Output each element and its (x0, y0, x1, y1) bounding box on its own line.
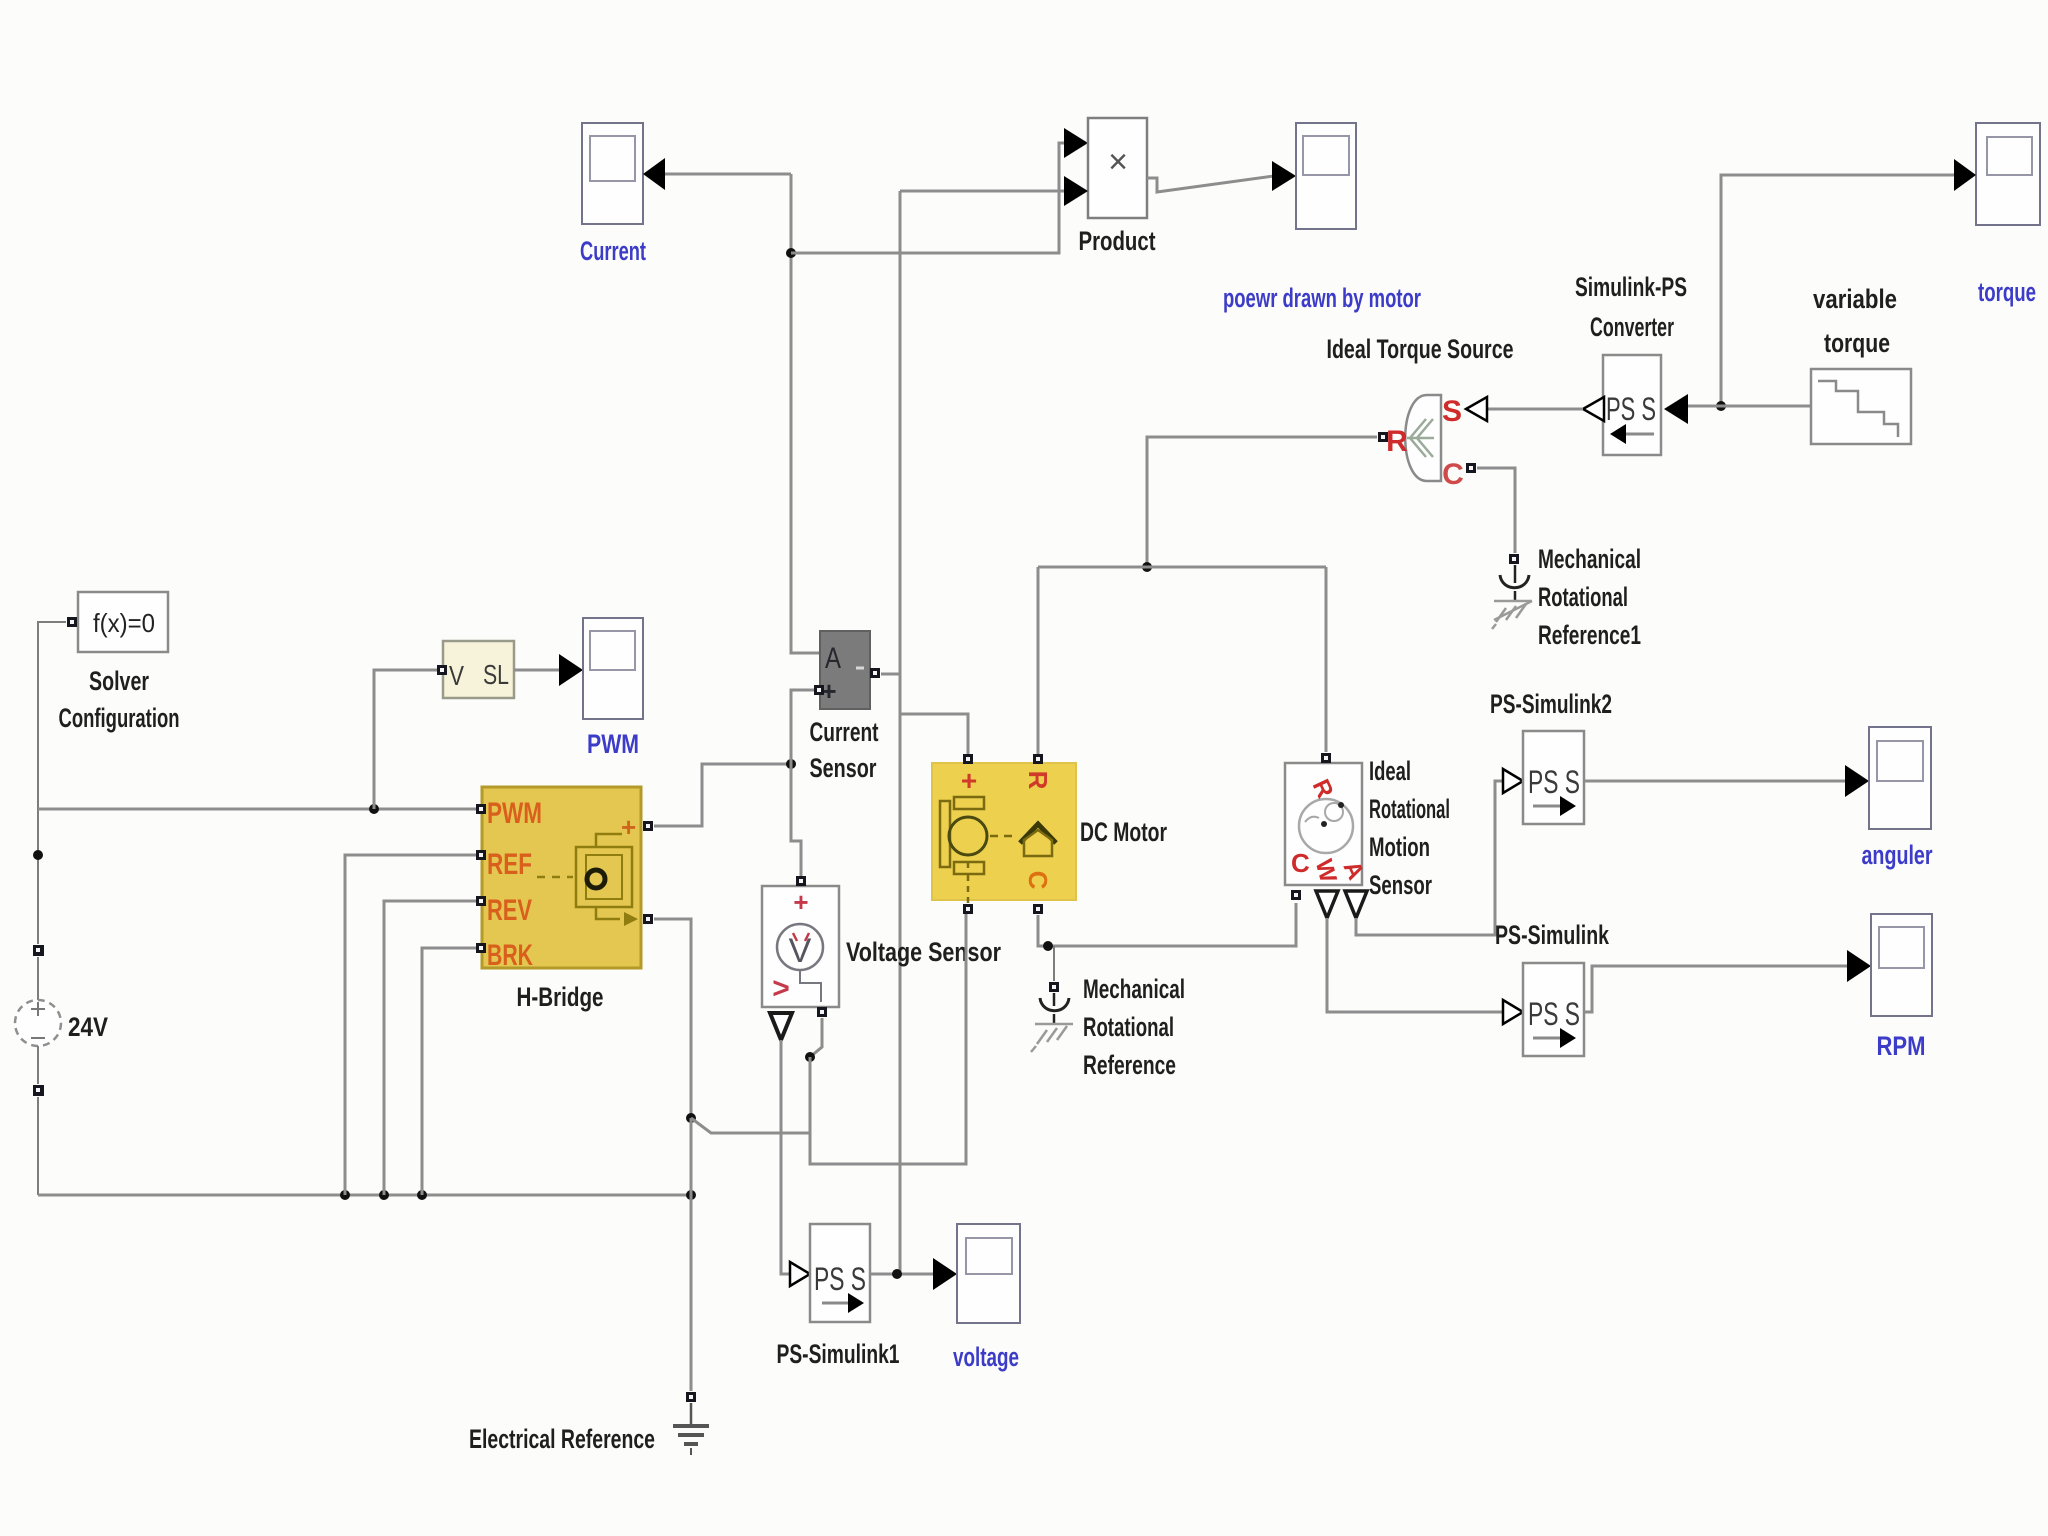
svg-text:anguler: anguler (1862, 840, 1933, 870)
svg-text:Product: Product (1079, 226, 1156, 256)
svg-text:torque: torque (1824, 328, 1890, 358)
svg-text:PS-Simulink1: PS-Simulink1 (777, 1339, 900, 1369)
svg-text:Ideal Torque Source: Ideal Torque Source (1327, 334, 1514, 364)
scope Current (582, 123, 643, 224)
wire H-bridge minus to vertical (654, 919, 691, 1118)
junction J1 at 791,253 (786, 248, 796, 258)
block PS-Simulink (1523, 963, 1584, 1056)
wire sensor W to PS-Simulink (1327, 918, 1504, 1012)
port arrow PS output (hollow) (1583, 397, 1604, 421)
svg-text:Simulink-PS: Simulink-PS (1575, 272, 1687, 302)
port arrow S input (hollow) (1466, 397, 1487, 421)
port square torque source C (1466, 463, 1476, 473)
svg-text:voltage: voltage (953, 1342, 1019, 1372)
port arrow sensor W (down triangle) (1316, 891, 1338, 918)
label Mechanical Rotational Reference1 (1538, 544, 1641, 650)
wire ground bus (38, 1194, 691, 1197)
block Voltage Sensor (762, 886, 839, 1007)
arrowhead into anguler scope (1845, 765, 1869, 797)
junction J7 at 691,1118 (686, 1113, 696, 1123)
wire minus rail down and to motor minus (810, 914, 966, 1164)
svg-text:BRK: BRK (487, 939, 533, 972)
svg-text:+: + (621, 812, 636, 842)
port square PWM (476, 804, 486, 814)
junction J3 at 1147,567 (1142, 562, 1152, 572)
svg-text:f(x)=0: f(x)=0 (93, 608, 155, 638)
wire REF line (345, 855, 476, 1195)
port square REF (476, 850, 486, 860)
port arrow PS-Simulink2 input (hollow) (1503, 769, 1523, 793)
label variable torque (1813, 284, 1897, 358)
port square motor R (1033, 754, 1043, 764)
svg-text:PS S: PS S (1606, 391, 1656, 427)
label Simulink-PS Converter (1575, 272, 1687, 342)
arrowhead product input2 (1064, 176, 1088, 206)
junction J8 at 810,1057 (805, 1052, 815, 1062)
junction bus BRK (417, 1190, 427, 1200)
wire variable torque to torque scope (1721, 175, 1954, 406)
arrowhead into RPM scope (1847, 950, 1871, 982)
scope anguler (1869, 727, 1931, 829)
svg-text:R: R (1023, 771, 1053, 790)
label Mechanical Rotational Reference (1083, 974, 1185, 1080)
block PS-Simulink2 (1523, 731, 1584, 824)
wire J7 down to electrical reference (690, 1118, 693, 1391)
source 24V (15, 945, 61, 1096)
wire BRK line (422, 948, 476, 1195)
wire mech net to sensor R (1325, 567, 1328, 752)
svg-text:Solver: Solver (89, 666, 149, 696)
junction J2 at 1721,406 (1716, 401, 1726, 411)
svg-text:24V: 24V (68, 1012, 108, 1042)
port square solver config (67, 617, 77, 627)
svg-text:Current: Current (810, 717, 879, 747)
wire J6 up to current sensor plus (791, 690, 814, 764)
svg-text:PWM: PWM (487, 797, 542, 830)
svg-text:poewr drawn by motor: poewr drawn by motor (1223, 283, 1421, 313)
wire from Current scope to vertical V1 (665, 173, 791, 176)
svg-text:Voltage Sensor: Voltage Sensor (846, 937, 1001, 967)
wire solver config to left rail (38, 622, 66, 944)
svg-text:C: C (1291, 848, 1310, 878)
svg-text:PS-Simulink2: PS-Simulink2 (1490, 689, 1612, 719)
port square motor plus (963, 754, 973, 764)
label Current Sensor (810, 717, 879, 783)
block Ideal Torque Source (1386, 395, 1464, 491)
wire PS-Simulink2 to anguler scope (1584, 780, 1847, 783)
junction J6 at 791,764 (786, 759, 796, 769)
svg-text:Configuration: Configuration (59, 703, 180, 733)
junction J10 at 1048,946 (1043, 941, 1053, 951)
port square sensor C (1291, 890, 1301, 900)
svg-text:SL: SL (483, 659, 509, 690)
port square torque source R (1378, 432, 1388, 442)
wire motor C to reference ground (1038, 903, 1296, 946)
svg-text:Converter: Converter (1590, 312, 1674, 342)
scope PWM (583, 618, 643, 719)
svg-text:H-Bridge: H-Bridge (517, 982, 604, 1012)
wire variable torque output (1688, 405, 1811, 408)
svg-text:PS S: PS S (814, 1261, 866, 1297)
junction J9 at 897,1274 (892, 1269, 902, 1279)
block Solver Configuration f(x)=0 (78, 592, 168, 652)
svg-text:Rotational: Rotational (1369, 794, 1450, 824)
ground Electrical Reference (673, 1392, 709, 1455)
junction bus REF (340, 1190, 350, 1200)
wire product bottom input from vertical V2 (900, 190, 1064, 193)
junction J5 at 374,809 (369, 804, 379, 814)
block Current Sensor (820, 631, 870, 709)
ground Mechanical Rotational Reference (1031, 982, 1073, 1052)
wire junction down to reference (1053, 946, 1055, 981)
port arrow PS-Simulink1 input (hollow) (790, 1262, 810, 1286)
wire product output to power scope (1147, 176, 1274, 192)
svg-text:variable: variable (1813, 284, 1897, 314)
arrowhead into PWM scope (559, 654, 583, 686)
arrowhead into scope Current (643, 158, 665, 190)
svg-text:+: + (793, 887, 808, 917)
block DC Motor (932, 763, 1076, 903)
wire converter to torque source S (1487, 408, 1583, 411)
svg-text:PS S: PS S (1528, 764, 1580, 800)
port square current sensor out (870, 668, 880, 678)
wire mech net to motor R (1037, 567, 1040, 754)
arrowhead into Simulink-PS converter (1664, 394, 1688, 424)
svg-text:A: A (825, 642, 841, 675)
block Product (1088, 118, 1147, 218)
wire torque source R to mech net (1147, 437, 1377, 567)
port square H-bridge minus out (643, 914, 653, 924)
block Controlled PWM Voltage (V SL) (443, 641, 514, 698)
wire junction to V input of controlled PWM (374, 670, 437, 809)
arrowhead into power scope (1272, 161, 1296, 191)
svg-text:V: V (789, 932, 812, 970)
svg-text:C: C (1023, 871, 1053, 890)
svg-text:torque: torque (1978, 277, 2036, 307)
svg-text:PWM: PWM (587, 729, 639, 759)
wire branch V2 to DC motor plus (900, 714, 968, 754)
ground Mechanical Rotational Reference1 (1492, 554, 1532, 629)
label Ideal Rotational Motion Sensor (1369, 756, 1450, 900)
svg-text:Sensor: Sensor (810, 753, 877, 783)
svg-text:Electrical Reference: Electrical Reference (469, 1424, 655, 1454)
wire voltage sensor bottom to minus rail (810, 1018, 822, 1057)
svg-text:PS-Simulink: PS-Simulink (1495, 920, 1610, 950)
junction bus right (686, 1190, 696, 1200)
svg-text:Current: Current (580, 236, 646, 266)
port arrow PS-Simulink input (hollow) (1503, 1000, 1523, 1024)
label Solver Configuration (59, 666, 180, 733)
svg-text:RPM: RPM (1877, 1031, 1926, 1061)
wire H-bridge plus to node J6 (654, 764, 791, 826)
arrowhead product input1 (1064, 128, 1088, 158)
wire 24V minus to ground bus (37, 1097, 39, 1195)
port square H-bridge plus out (643, 821, 653, 831)
svg-text:Mechanical: Mechanical (1538, 544, 1641, 574)
port square motor minus (963, 904, 973, 914)
wire V SL to PWM scope (514, 669, 562, 672)
junction J4 at 38,855 (33, 850, 43, 860)
svg-text:DC Motor: DC Motor (1080, 817, 1167, 847)
port arrow sensor A (down triangle) (1345, 891, 1367, 918)
wire PS output down to PS-Simulink1 (781, 1040, 791, 1274)
port square voltage sensor bottom (817, 1007, 827, 1017)
svg-text:REF: REF (487, 848, 532, 881)
svg-text:Mechanical: Mechanical (1083, 974, 1185, 1004)
wire PS-Simulink1 output to voltage scope (870, 1273, 936, 1276)
svg-text:Motion: Motion (1369, 832, 1430, 862)
svg-text:PS S: PS S (1528, 996, 1580, 1032)
svg-text:C: C (1442, 458, 1464, 491)
svg-text:Ideal: Ideal (1369, 756, 1411, 786)
wire REV line (384, 901, 476, 1195)
wire J1 to product top input (791, 143, 1066, 253)
scope torque (1976, 123, 2040, 225)
svg-text:Reference1: Reference1 (1538, 620, 1641, 650)
svg-text:Rotational: Rotational (1083, 1012, 1174, 1042)
port square V input (437, 665, 447, 675)
svg-text:R: R (1386, 425, 1408, 458)
arrowhead into torque scope (1954, 159, 1976, 191)
wire PWM control line (38, 808, 476, 811)
svg-text:Rotational: Rotational (1538, 582, 1628, 612)
block H-Bridge (482, 787, 641, 972)
block Ideal Rotational Motion Sensor (1285, 763, 1369, 886)
block PS-Simulink1 (810, 1224, 870, 1322)
svg-text:V: V (449, 660, 464, 691)
arrowhead into voltage scope (933, 1258, 957, 1290)
port square motor C (1033, 904, 1043, 914)
wire mech net horizontal (1038, 566, 1326, 569)
wire PS-Simulink to RPM scope (1584, 966, 1847, 1012)
wire vertical V1 current-net (791, 174, 820, 653)
port arrow voltage sensor PS output (down triangle) (770, 1013, 792, 1040)
port square voltage sensor top (796, 876, 806, 886)
scope voltage (957, 1224, 1020, 1323)
svg-text:REV: REV (487, 894, 532, 927)
port square BRK (476, 943, 486, 953)
wire sensor A to PS-Simulink2 (1356, 781, 1504, 935)
port square current sensor plus (814, 685, 824, 695)
svg-text:+: + (961, 765, 977, 796)
junction bus REV (379, 1190, 389, 1200)
wire J7 diagonal to minus rail (691, 1118, 810, 1133)
wire current sensor out to vertical V2 (881, 673, 900, 676)
scope poewr drawn by motor (1296, 123, 1356, 229)
port square sensor R (1321, 753, 1331, 763)
wire J6 down to voltage sensor top (791, 764, 801, 876)
scope RPM (1871, 914, 1932, 1016)
block variable torque (signal builder) (1811, 369, 1911, 444)
wire vertical V2 voltage-net (899, 191, 902, 1274)
block Simulink-PS Converter (1603, 355, 1661, 455)
svg-text:Sensor: Sensor (1369, 870, 1432, 900)
svg-text:S: S (1442, 395, 1462, 428)
svg-text:×: × (1108, 143, 1128, 181)
wire torque source C to reference1 (1477, 468, 1515, 553)
port square REV (476, 896, 486, 906)
svg-text:Reference: Reference (1083, 1050, 1176, 1080)
svg-text:>: > (772, 972, 790, 1005)
